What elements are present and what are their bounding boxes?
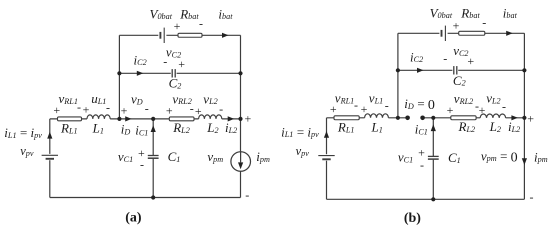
- svg-text:RL2: RL2: [458, 119, 476, 134]
- svg-text:+: +: [447, 103, 454, 117]
- svg-text:iL1 = ipv: iL1 = ipv: [4, 125, 42, 140]
- svg-text:iC1: iC1: [415, 122, 428, 137]
- svg-text:+: +: [330, 102, 337, 116]
- svg-text:vL2: vL2: [203, 91, 217, 106]
- svg-text:+: +: [178, 57, 185, 71]
- svg-text:iD: iD: [121, 122, 131, 137]
- svg-text:iL2: iL2: [508, 119, 520, 134]
- svg-text:+: +: [121, 103, 128, 117]
- svg-text:vpv: vpv: [20, 144, 34, 158]
- svg-text:-: -: [420, 158, 424, 172]
- svg-text:+: +: [479, 103, 486, 117]
- svg-text:vD: vD: [131, 92, 143, 107]
- svg-text:-: -: [443, 51, 447, 65]
- svg-text:Rbat: Rbat: [179, 6, 199, 21]
- svg-text:L2: L2: [489, 119, 501, 134]
- svg-text:C2: C2: [169, 76, 182, 91]
- svg-text:+: +: [361, 102, 368, 116]
- svg-text:-: -: [190, 101, 194, 115]
- svg-text:-: -: [199, 16, 203, 30]
- svg-text:vC1: vC1: [118, 149, 133, 164]
- svg-text:-: -: [502, 100, 506, 114]
- svg-text:iD = 0: iD = 0: [404, 96, 435, 113]
- svg-text:V0bat: V0bat: [430, 5, 453, 20]
- svg-text:-: -: [219, 102, 223, 116]
- svg-text:+: +: [453, 18, 460, 32]
- svg-text:-: -: [77, 100, 81, 114]
- svg-text:uL1: uL1: [91, 91, 106, 106]
- svg-text:iL2: iL2: [225, 120, 237, 135]
- svg-text:C1: C1: [168, 149, 181, 164]
- svg-text:+: +: [53, 103, 60, 117]
- svg-text:+: +: [467, 54, 474, 68]
- svg-text:-: -: [163, 55, 167, 69]
- svg-text:vRL1: vRL1: [59, 91, 78, 106]
- svg-text:L2: L2: [206, 120, 218, 135]
- svg-text:ipm: ipm: [534, 149, 548, 164]
- svg-text:vRL2: vRL2: [454, 91, 473, 106]
- svg-text:+: +: [245, 111, 252, 125]
- svg-text:L1: L1: [371, 120, 383, 135]
- svg-text:vRL1: vRL1: [335, 91, 354, 106]
- svg-text:RL2: RL2: [172, 120, 190, 135]
- svg-text:vL1: vL1: [369, 91, 383, 106]
- svg-text:-: -: [245, 188, 249, 202]
- svg-text:Rbat: Rbat: [460, 5, 480, 20]
- svg-text:vpv: vpv: [296, 144, 310, 158]
- svg-text:L1: L1: [92, 121, 104, 136]
- svg-text:-: -: [145, 102, 149, 116]
- svg-text:-: -: [106, 100, 110, 114]
- svg-text:(a): (a): [125, 211, 142, 226]
- svg-text:+: +: [174, 19, 181, 33]
- svg-text:iC2: iC2: [410, 49, 423, 64]
- svg-text:+: +: [83, 102, 90, 116]
- svg-text:-: -: [482, 15, 486, 29]
- svg-text:RL1: RL1: [60, 121, 78, 136]
- svg-text:iL1 = ipv: iL1 = ipv: [281, 124, 319, 139]
- svg-text:RL1: RL1: [337, 120, 355, 135]
- svg-text:+: +: [166, 103, 173, 117]
- svg-text:+: +: [195, 104, 202, 118]
- svg-text:-: -: [354, 98, 358, 112]
- svg-text:vpm = 0: vpm = 0: [481, 148, 518, 165]
- svg-text:vpm: vpm: [207, 149, 223, 164]
- svg-text:-: -: [140, 158, 144, 172]
- svg-text:iC2: iC2: [134, 52, 147, 67]
- svg-text:V0bat: V0bat: [150, 6, 173, 21]
- svg-text:(b): (b): [404, 211, 421, 226]
- svg-text:-: -: [385, 98, 389, 112]
- svg-text:-: -: [530, 190, 534, 204]
- svg-text:vL2: vL2: [486, 91, 500, 106]
- svg-text:+: +: [527, 111, 534, 125]
- svg-text:iC1: iC1: [135, 123, 148, 138]
- svg-text:vC2: vC2: [453, 43, 468, 58]
- svg-text:C1: C1: [448, 150, 461, 165]
- svg-text:vC1: vC1: [398, 150, 413, 165]
- svg-text:ibat: ibat: [503, 5, 518, 20]
- svg-text:ipm: ipm: [256, 149, 270, 164]
- svg-text:ibat: ibat: [218, 6, 233, 21]
- svg-text:C2: C2: [453, 73, 466, 88]
